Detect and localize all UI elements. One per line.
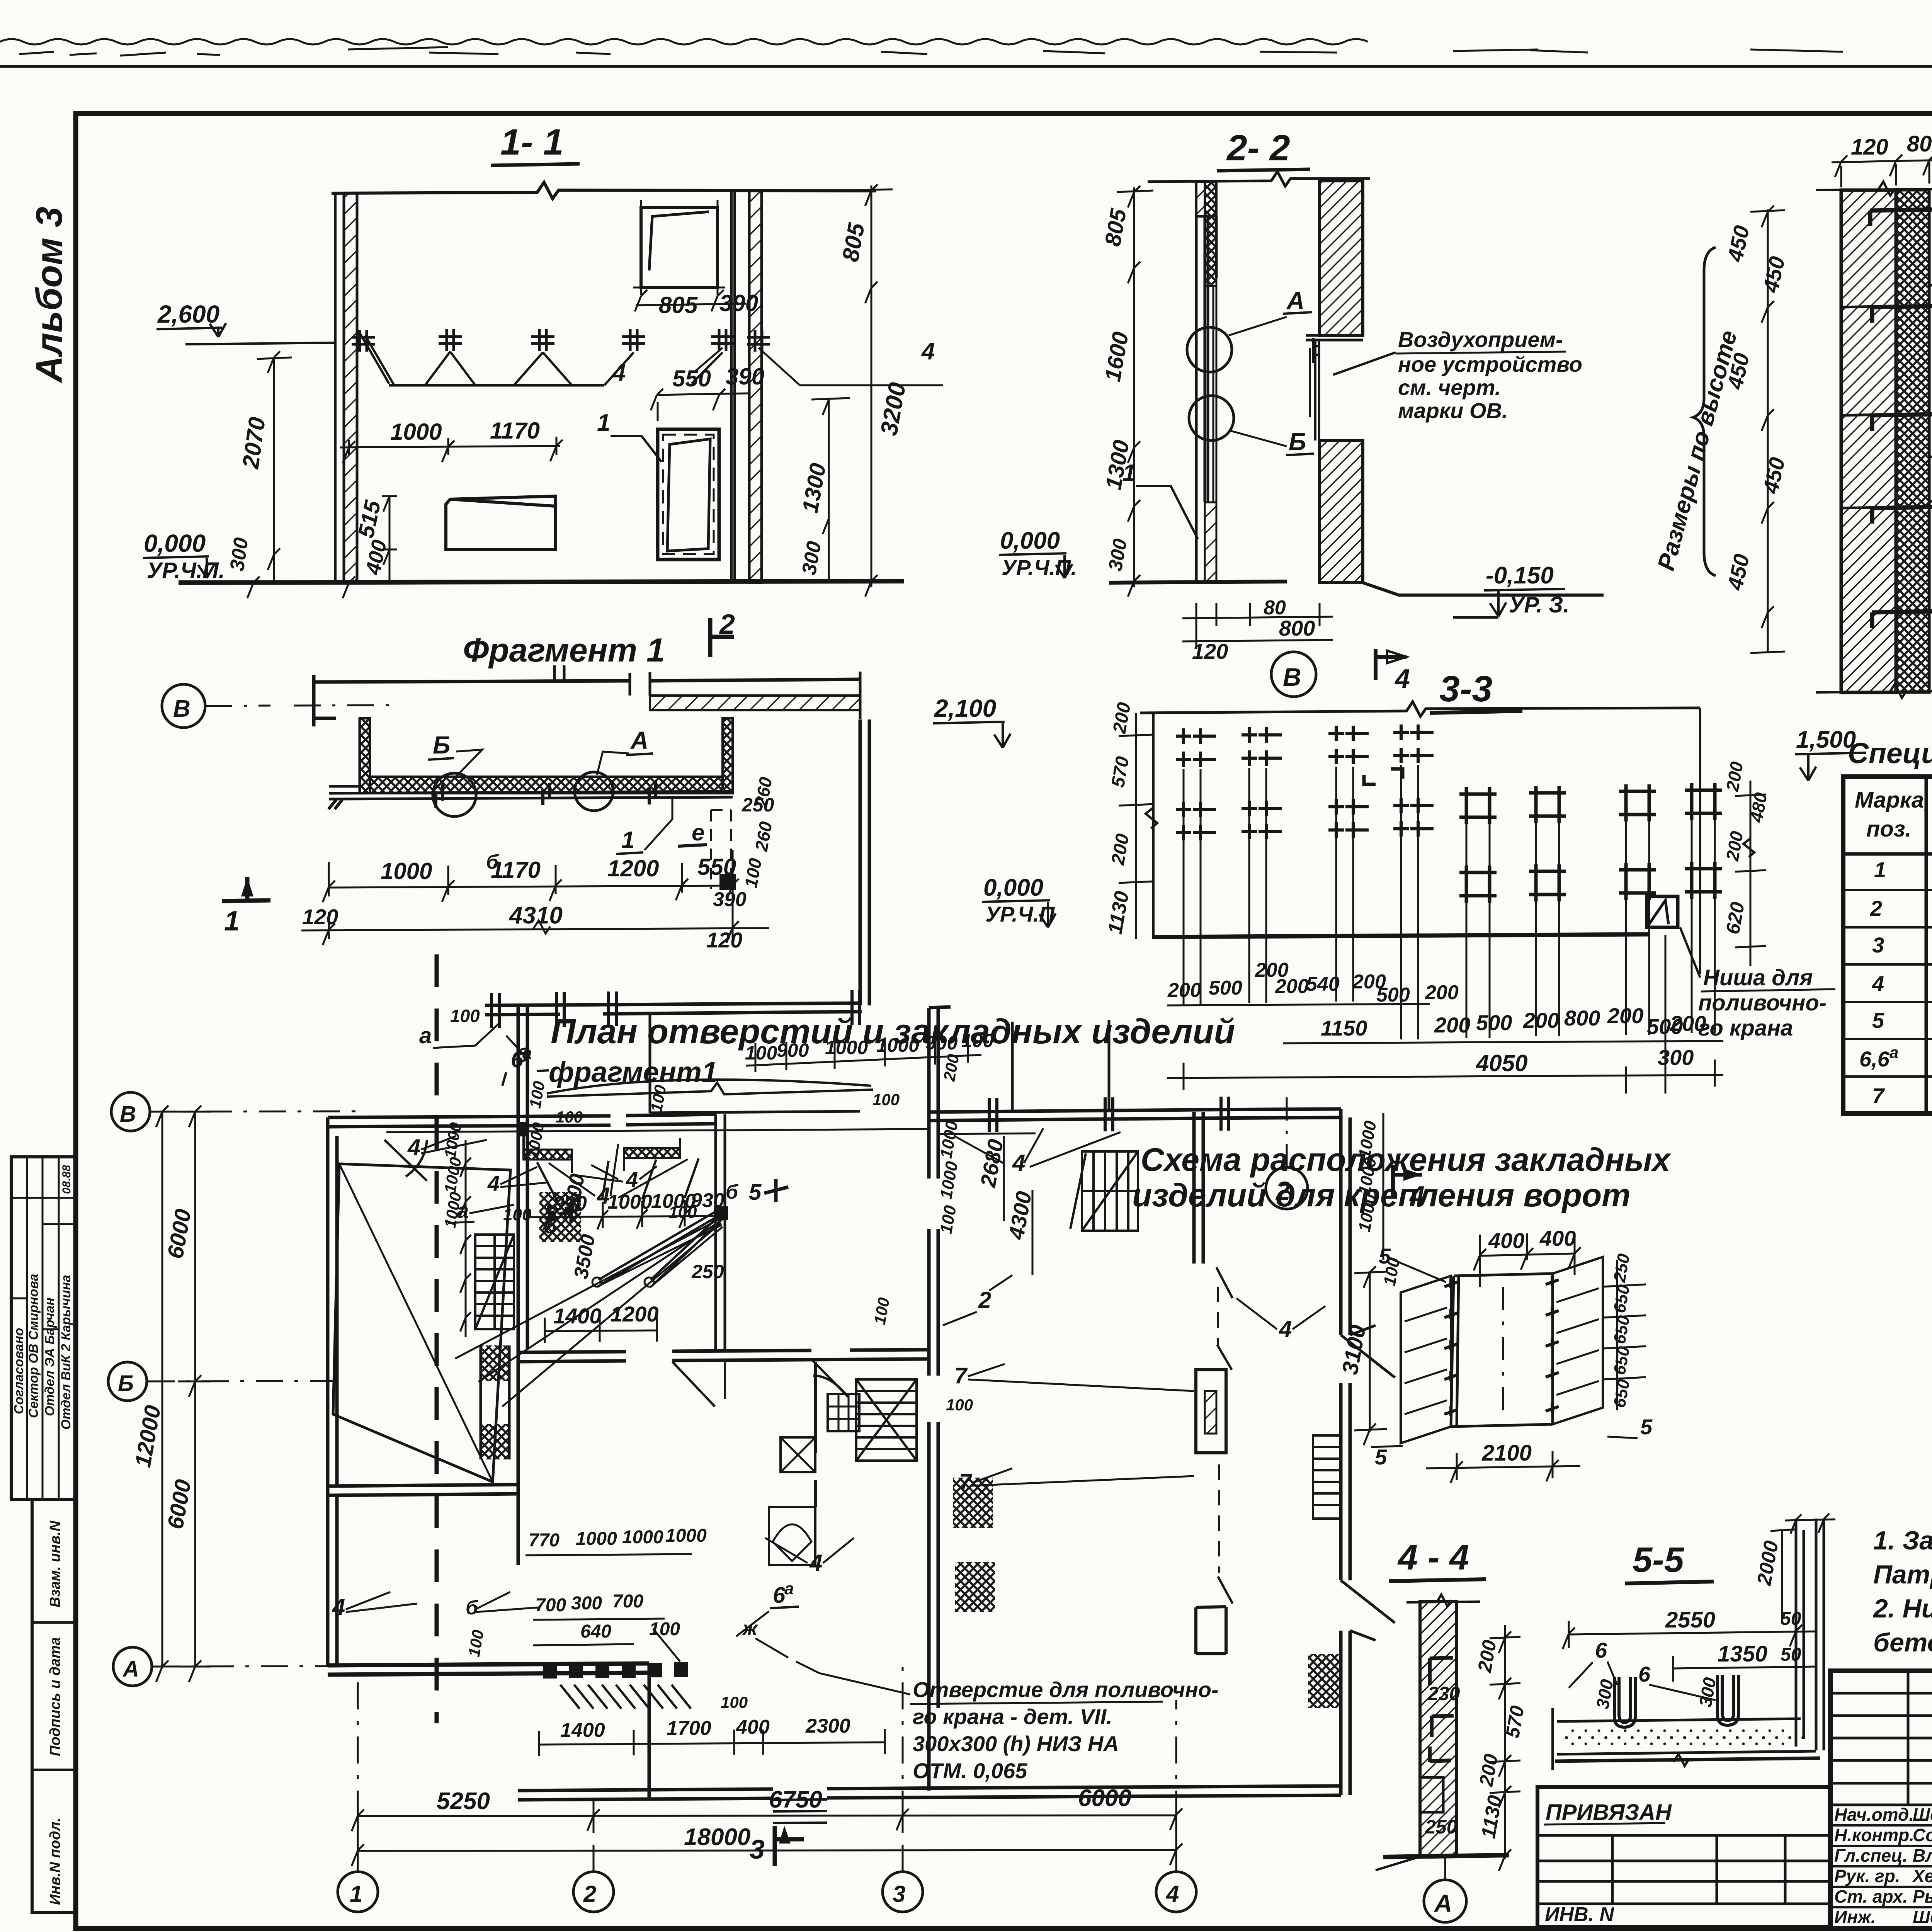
svg-text:поливочно-: поливочно- (1698, 990, 1827, 1015)
svg-text:4: 4 (1394, 663, 1410, 694)
svg-text:Власенко: Власенко (1913, 1845, 1932, 1866)
svg-text:1000: 1000 (607, 1191, 652, 1213)
svg-text:100: 100 (465, 1628, 487, 1658)
partition x2110 + entry steps (814, 1362, 817, 1507)
svg-text:300: 300 (1658, 1045, 1694, 1070)
right side rotated chains (1355, 1119, 1404, 1287)
svg-text:Спецификация к схеме располож: Спецификация к схеме расположения заклад… (1848, 737, 1932, 769)
svg-text:4: 4 (921, 338, 935, 365)
svg-text:Хесина: Хесина (1912, 1866, 1932, 1886)
svg-text:450: 450 (1758, 254, 1789, 295)
svg-text:Взам. инв.N: Взам. инв.N (47, 1520, 63, 1607)
extra small dims (524, 1053, 963, 1160)
svg-text:Нач.отд.: Нач.отд. (1834, 1804, 1914, 1825)
svg-text:6: 6 (1638, 1662, 1651, 1686)
svg-text:2: 2 (1870, 896, 1882, 920)
svg-text:700: 700 (535, 1595, 566, 1616)
svg-text:А: А (1434, 1889, 1452, 1917)
svg-text:0,000: 0,000 (1000, 527, 1060, 554)
brace + rotated text (1693, 247, 1716, 576)
svg-text:120: 120 (302, 905, 338, 929)
stairs S3 (856, 1379, 917, 1461)
svg-text:450: 450 (1723, 223, 1754, 264)
5 section flags (560, 1202, 582, 1223)
left margin stamp table (rotated approvals) (11, 1157, 75, 1499)
svg-text:12000: 12000 (130, 1403, 166, 1469)
svg-text:2000: 2000 (1753, 1539, 1783, 1587)
svg-text:1200: 1200 (611, 1302, 659, 1326)
svg-text:4050: 4050 (1476, 1050, 1527, 1076)
svg-text:УР. З.: УР. З. (1509, 592, 1569, 617)
right rotated dims (1603, 1260, 1646, 1410)
svg-text:а: а (419, 1023, 432, 1048)
walls: top-left block (328, 1114, 716, 1665)
svg-text:4 - 4: 4 - 4 (1397, 1538, 1469, 1577)
svg-text:800: 800 (1564, 1006, 1600, 1030)
lower-left wall on A axis + anchors (328, 1663, 649, 1675)
svg-text:450: 450 (1723, 552, 1754, 592)
left dim chains (156, 1105, 211, 1682)
svg-text:4: 4 (487, 1171, 500, 1196)
svg-text:620: 620 (1722, 900, 1749, 936)
svg-text:400: 400 (1488, 1228, 1524, 1253)
svg-text:100: 100 (503, 1205, 532, 1224)
gate leaf rect (1451, 1274, 1553, 1427)
paper scan artifacts top (0, 39, 1932, 66)
svg-text:100: 100 (871, 1296, 893, 1326)
-0,150 mark near 3-3 (1453, 562, 1569, 617)
duct strips + 930 dim row (524, 1150, 572, 1160)
svg-text:650: 650 (1610, 1314, 1634, 1345)
svg-text:бетоном класса В15: бетоном класса В15 (1873, 1628, 1932, 1657)
row y~4500 dims (539, 1729, 885, 1756)
svg-text:50: 50 (1781, 1645, 1801, 1665)
svg-text:3: 3 (1872, 933, 1884, 957)
plate sketch lower (446, 496, 556, 549)
svg-text:100: 100 (668, 1203, 697, 1222)
corner angle marks (1364, 769, 1403, 784)
svg-text:200: 200 (1425, 981, 1459, 1004)
svg-text:2- 2: 2- 2 (1226, 128, 1290, 168)
svg-text:7: 7 (959, 1469, 973, 1495)
left wall hatched (344, 193, 357, 583)
svg-text:7: 7 (954, 1363, 968, 1388)
svg-text:650: 650 (1610, 1283, 1634, 1314)
svg-text:б: б (726, 1181, 739, 1203)
svg-text:1000: 1000 (622, 1527, 663, 1548)
brick wall hatched (1841, 190, 1896, 692)
section mark 3 bottom (775, 1826, 804, 1866)
Воздухоприем text (1333, 327, 1582, 423)
svg-text:Марка,: Марка, (1855, 787, 1930, 813)
gate wall (485, 1003, 862, 1015)
svg-text:2. Ниши (,ж') после установки: 2. Ниши (,ж') после установки кронштейно… (1872, 1594, 1932, 1623)
squares row2 (1459, 866, 1497, 903)
svg-text:ПРИВЯЗАН: ПРИВЯЗАН (1546, 1800, 1672, 1825)
svg-text:4: 4 (1012, 1150, 1025, 1176)
svg-text:1: 1 (597, 410, 610, 436)
niche label (1698, 965, 1835, 1041)
svg-text:5250: 5250 (437, 1788, 490, 1815)
svg-text:3: 3 (750, 1834, 765, 1864)
plus clusters row2 (1176, 802, 1216, 840)
right jamb hatch (1553, 1257, 1603, 1424)
svg-text:го крана - дет. VII.: го крана - дет. VII. (913, 1704, 1112, 1729)
svg-text:800: 800 (1279, 616, 1315, 640)
svg-text:Н.контр.: Н.контр. (1834, 1825, 1914, 1845)
svg-text:100: 100 (450, 1006, 480, 1026)
svg-text:4: 4 (612, 359, 626, 386)
hall left wall dim chain (937, 1119, 962, 1235)
trench walls crosshatch (360, 718, 370, 793)
opening 1 with dashed frame (658, 429, 719, 560)
svg-text:Шейко: Шейко (1913, 1804, 1932, 1825)
поливочный кран note (910, 1677, 1219, 1783)
plan annotations (332, 1006, 1404, 1866)
svg-text:ОТМ. 0,065: ОТМ. 0,065 (913, 1759, 1027, 1783)
svg-text:4: 4 (1872, 971, 1884, 996)
svg-text:1000: 1000 (441, 1156, 465, 1194)
svg-text:100: 100 (961, 1030, 994, 1051)
svg-text:200: 200 (1275, 975, 1309, 998)
svg-text:100: 100 (937, 1204, 960, 1235)
svg-text:6000: 6000 (163, 1478, 196, 1531)
svg-text:50: 50 (1781, 1609, 1801, 1629)
dims (1563, 1618, 1816, 1649)
circle В and mark 4 (1271, 652, 1316, 697)
svg-text:0,000: 0,000 (983, 874, 1043, 901)
dim line row2 (1283, 1041, 1723, 1043)
niche square (1647, 896, 1678, 927)
lower hall (518, 1665, 1341, 1800)
vertical channel (1796, 1519, 1824, 1750)
dims above fragment top in plan (745, 1030, 994, 1064)
svg-text:-0,150: -0,150 (1486, 562, 1554, 589)
svg-text:1170: 1170 (491, 857, 541, 883)
suspended ceiling line & hangers (389, 384, 604, 387)
svg-text:Альбом 3: Альбом 3 (29, 207, 70, 383)
right wall with doors (1341, 1109, 1350, 1795)
svg-text:5: 5 (1375, 1445, 1387, 1469)
right wall pair (731, 191, 735, 583)
svg-text:2550: 2550 (1665, 1607, 1715, 1633)
wedge to insulation (1929, 456, 1932, 502)
svg-text:2100: 2100 (1481, 1440, 1532, 1466)
svg-text:1000: 1000 (441, 1190, 465, 1229)
row y~4000 dims (526, 1554, 692, 1555)
svg-text:Отдел ВиК 2 Карычина: Отдел ВиК 2 Карычина (59, 1275, 73, 1430)
svg-text:900: 900 (777, 1039, 809, 1061)
bottom dim 2100 (1426, 1451, 1580, 1483)
left rotated dims (1119, 713, 1153, 939)
svg-text:5: 5 (749, 1180, 762, 1205)
svg-text:1: 1 (1874, 857, 1886, 882)
svg-text:200: 200 (1475, 1752, 1502, 1788)
svg-text:200: 200 (1722, 830, 1747, 863)
svg-text:Б: Б (118, 1371, 134, 1396)
svg-text:300: 300 (226, 536, 253, 573)
left small rotated 1000-chain (441, 1121, 465, 1229)
svg-text:5: 5 (544, 1201, 557, 1226)
svg-text:го крана: го крана (1698, 1015, 1793, 1041)
svg-text:Отдел ЭА Барчан: Отдел ЭА Барчан (43, 1298, 57, 1416)
anchors along jambs (1444, 1276, 1559, 1416)
svg-text:1000: 1000 (825, 1037, 868, 1058)
svg-text:Схема расположения закладных: Схема расположения закладных (1141, 1141, 1672, 1178)
horizontal floor with stipple (1557, 1719, 1816, 1754)
dims row y~3420 (545, 1316, 657, 1343)
dims right (1490, 1625, 1520, 1871)
anchor ticks on trench (328, 781, 656, 809)
svg-text:В: В (1283, 663, 1301, 691)
wall 2 (masonry with opening) (1320, 181, 1363, 335)
svg-text:ИНВ. N: ИНВ. N (1545, 1903, 1614, 1926)
svg-text:А: А (1286, 287, 1304, 315)
svg-text:1000: 1000 (390, 419, 442, 445)
axis circles left (111, 1092, 150, 1131)
svg-text:ное устройство: ное устройство (1398, 352, 1582, 376)
squares row1 (1459, 787, 1497, 824)
svg-text:6: 6 (773, 1583, 786, 1608)
bottom break (1816, 684, 1932, 698)
svg-text:марки ОВ.: марки ОВ. (1398, 398, 1508, 423)
svg-text:805: 805 (1100, 207, 1131, 248)
ground line (179, 581, 904, 583)
svg-text:770: 770 (529, 1530, 560, 1551)
svg-text:А: А (630, 726, 648, 754)
ladder S4 right wall (1313, 1435, 1341, 1519)
svg-text:5: 5 (1640, 1415, 1653, 1439)
svg-text:Подпись и дата: Подпись и дата (47, 1637, 63, 1756)
svg-text:Патрубки поз. 6а заложить н: Патрубки поз. 6а заложить на отм. 2,500. (1873, 1560, 1932, 1589)
svg-text:Инв.N подл.: Инв.N подл. (47, 1818, 63, 1905)
middle dividing wall (929, 1007, 951, 1791)
svg-text:1: 1 (350, 1881, 362, 1907)
top line with squiggle (1140, 702, 1700, 716)
svg-text:2: 2 (719, 609, 735, 640)
svg-text:120: 120 (1851, 134, 1888, 160)
svg-text:1000: 1000 (576, 1529, 617, 1549)
anchor brackets (1870, 209, 1932, 628)
svg-text:100: 100 (745, 1042, 777, 1064)
svg-text:500: 500 (1476, 1010, 1512, 1035)
svg-text:540: 540 (1306, 973, 1340, 995)
sprinkle 100 labels (465, 1080, 973, 1711)
svg-text:450: 450 (1758, 455, 1789, 496)
svg-text:см. черт.: см. черт. (1398, 375, 1501, 400)
svg-text:Ст. арх.: Ст. арх. (1834, 1886, 1908, 1906)
svg-text:200: 200 (1109, 701, 1134, 735)
svg-text:1300: 1300 (798, 461, 831, 515)
svg-text:200: 200 (1722, 760, 1747, 793)
svg-text:Рыбалова: Рыбалова (1913, 1886, 1932, 1906)
svg-text:4: 4 (1279, 1316, 1292, 1342)
svg-text:1150: 1150 (1321, 1016, 1367, 1040)
svg-text:390: 390 (726, 364, 764, 389)
svg-text:230: 230 (1427, 1683, 1460, 1704)
svg-text:300x300 (h) НИЗ НА: 300x300 (h) НИЗ НА (913, 1731, 1119, 1756)
svg-text:2300: 2300 (805, 1715, 850, 1737)
svg-text:1600: 1600 (1100, 330, 1133, 383)
mid horizontal wall with doors (518, 1350, 929, 1362)
svg-text:4: 4 (332, 1594, 345, 1620)
svg-text:1400: 1400 (553, 1304, 602, 1328)
left margin lower boxes (32, 1499, 75, 1912)
svg-text:250: 250 (691, 1261, 724, 1282)
svg-text:1000: 1000 (381, 858, 432, 884)
svg-text:2070: 2070 (237, 415, 270, 471)
dim row (323, 850, 739, 943)
svg-text:1200: 1200 (607, 855, 659, 881)
svg-text:500: 500 (1376, 984, 1410, 1006)
U pipe stubs (1614, 1677, 1635, 1727)
svg-text:200: 200 (1523, 1008, 1559, 1032)
svg-text:570: 570 (1108, 755, 1133, 789)
svg-text:Фрагмент 1: Фрагмент 1 (463, 632, 665, 669)
top dims 400 400 (1474, 1233, 1581, 1287)
svg-text:650: 650 (1610, 1378, 1634, 1409)
svg-text:Рук. гр.: Рук. гр. (1834, 1866, 1900, 1886)
svg-text:В: В (120, 1102, 136, 1127)
svg-text:805: 805 (837, 220, 870, 264)
4310 row (301, 910, 769, 945)
svg-text:1: 1 (224, 906, 240, 937)
svg-text:4: 4 (597, 1183, 610, 1209)
svg-text:3200: 3200 (876, 381, 911, 438)
svg-text:В: В (173, 696, 190, 722)
upper right plate detail (641, 207, 718, 287)
top break line (1816, 182, 1932, 196)
svg-text:Гл.спец.: Гл.спец. (1834, 1845, 1908, 1866)
circles Б and А (433, 773, 476, 816)
svg-text:5: 5 (1379, 1244, 1391, 1268)
svg-text:2: 2 (978, 1287, 991, 1313)
misc interior door arcs top-left (384, 1140, 427, 1181)
svg-text:7: 7 (1872, 1083, 1885, 1108)
stairs S2 (1070, 1151, 1138, 1231)
right dim chains (811, 184, 893, 597)
svg-text:1700: 1700 (667, 1717, 711, 1740)
svg-text:120: 120 (1192, 639, 1228, 663)
left jamb hatch (1401, 1276, 1451, 1443)
svg-text:1350: 1350 (1718, 1641, 1767, 1667)
svg-text:6: 6 (1595, 1638, 1607, 1662)
svg-text:Отверстие для поливочно-: Отверстие для поливочно- (913, 1677, 1219, 1702)
struts + fan from anchor point (599, 1210, 722, 1284)
svg-text:изделий для крепления воро: изделий для крепления ворот (1132, 1177, 1631, 1213)
svg-text:200: 200 (1607, 1003, 1643, 1028)
circles A and B on wall (1187, 327, 1232, 372)
svg-text:250: 250 (1610, 1252, 1633, 1284)
svg-text:300: 300 (1104, 537, 1131, 573)
svg-text:100: 100 (946, 1396, 973, 1414)
svg-text:200: 200 (1107, 832, 1133, 867)
svg-text:100: 100 (556, 1108, 583, 1126)
svg-text:1400: 1400 (560, 1719, 605, 1742)
svg-text:100: 100 (872, 1090, 900, 1109)
verticals dropping to dims (1184, 765, 1715, 1039)
svg-text:100: 100 (721, 1693, 748, 1711)
svg-text:08.88: 08.88 (60, 1165, 73, 1194)
svg-text:300: 300 (798, 539, 826, 577)
svg-text:а: а (784, 1579, 794, 1598)
svg-text:200: 200 (1474, 1638, 1501, 1674)
svg-text:1: 1 (621, 827, 634, 854)
svg-text:250: 250 (1425, 1816, 1458, 1838)
left room sloped tank (333, 1164, 510, 1482)
svg-text:1,500: 1,500 (1796, 726, 1856, 753)
svg-text:3-3: 3-3 (1439, 668, 1492, 709)
svg-text:поз.: поз. (1866, 816, 1912, 842)
svg-text:200: 200 (1167, 979, 1201, 1002)
svg-text:400: 400 (1539, 1226, 1576, 1250)
stairs S1 (475, 1235, 514, 1329)
svg-text:120: 120 (706, 928, 742, 952)
svg-text:Сокольская: Сокольская (1913, 1825, 1932, 1845)
insulation crosshatch (1896, 190, 1929, 692)
svg-text:550: 550 (672, 366, 711, 391)
4050 row (1167, 1060, 1723, 1090)
circle B axis (162, 684, 205, 728)
svg-text:640: 640 (580, 1621, 611, 1642)
circle 2 and mark 4 (1266, 1167, 1308, 1209)
svg-text:700: 700 (612, 1591, 643, 1612)
svg-text:Согласовано: Согласовано (12, 1328, 26, 1414)
svg-text:4300: 4300 (1004, 1189, 1036, 1242)
svg-text:4310: 4310 (509, 902, 563, 929)
svg-text:а: а (1889, 1043, 1898, 1061)
svg-text:ж: ж (742, 1617, 759, 1640)
top wall double (314, 675, 630, 726)
left attachment box (1537, 1787, 1830, 1927)
svg-text:18000: 18000 (684, 1824, 750, 1850)
top-right block (929, 1109, 1341, 1264)
svg-text:4: 4 (1166, 1881, 1179, 1907)
personnel rows (1830, 1825, 1932, 1907)
svg-text:УР.Ч.П.: УР.Ч.П. (147, 558, 225, 583)
svg-text:550: 550 (697, 854, 736, 880)
svg-text:2,100: 2,100 (934, 694, 996, 722)
ground & bottom dims (1109, 582, 1287, 583)
svg-text:3: 3 (893, 1881, 905, 1907)
svg-text:6000: 6000 (163, 1207, 196, 1260)
svg-text:1. Закладные изделия поз. 7: 1. Закладные изделия поз. 7 выполнить на… (1873, 1526, 1932, 1555)
left 450 dims (1750, 206, 1785, 653)
svg-text:1000: 1000 (937, 1160, 962, 1200)
svg-text:1- 1: 1- 1 (500, 122, 564, 163)
svg-text:1000: 1000 (876, 1034, 919, 1056)
dim line row1 (1167, 1004, 1430, 1005)
svg-text:2: 2 (583, 1881, 596, 1907)
svg-text:Сектор ОВ Смирнова: Сектор ОВ Смирнова (26, 1274, 41, 1418)
svg-text:6,6: 6,6 (1859, 1047, 1890, 1071)
svg-text:650: 650 (1610, 1345, 1634, 1376)
bottom thick line (1153, 934, 1649, 937)
little fixture in room (781, 1437, 815, 1472)
svg-text:Воздухоприем-: Воздухоприем- (1398, 327, 1563, 352)
plus clusters row1 (1176, 728, 1216, 767)
left break squiggle on boundary (1146, 808, 1157, 828)
fragment right wall down (860, 719, 869, 1005)
svg-text:1130: 1130 (1477, 1794, 1507, 1840)
svg-text:0,000: 0,000 (144, 529, 206, 557)
svg-text:1000: 1000 (665, 1526, 707, 1546)
svg-text:Б: Б (433, 731, 450, 759)
svg-text:А: А (122, 1656, 139, 1682)
bottom axis circles (338, 1872, 378, 1912)
svg-text:200: 200 (1434, 1013, 1470, 1037)
svg-text:Шевлякова: Шевлякова (1913, 1907, 1932, 1927)
